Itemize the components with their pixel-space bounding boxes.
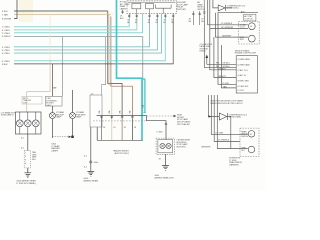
body line arrow xyxy=(174,115,177,117)
wire G2 row2 LT BLU xyxy=(14,18,137,30)
TAN lower branch xyxy=(49,14,51,60)
svg-text:OR/BLK: OR/BLK xyxy=(219,68,227,70)
tail lamp circle 1 xyxy=(16,120,23,127)
svg-text:REAR WINDOW ELECTRIC DEFOG: REAR WINDOW ELECTRIC DEFOG xyxy=(211,102,243,105)
svg-text:1 TAN: 1 TAN xyxy=(2,13,8,16)
wire to ground G400 left xyxy=(27,168,29,173)
taillamp box xyxy=(16,112,42,134)
svg-text:(EXPORT): (EXPORT) xyxy=(177,146,187,148)
svg-text:18: 18 xyxy=(124,127,126,129)
ground label middle xyxy=(84,178,99,182)
svg-text:S400: S400 xyxy=(94,162,99,164)
svg-text:CLUT: CLUT xyxy=(240,27,246,29)
svg-text:(DIAG): (DIAG) xyxy=(200,50,206,53)
svg-text:14 GND SIG: 14 GND SIG xyxy=(237,86,248,88)
svg-text:CLUTCH: CLUTCH xyxy=(244,19,252,21)
high mount inner box xyxy=(158,140,173,153)
junction arrow xyxy=(209,115,211,117)
SBEC feed verticals xyxy=(214,37,236,77)
A/C clutch title box xyxy=(244,14,256,21)
dashed arrow line xyxy=(52,136,68,138)
strip pins xyxy=(100,116,133,120)
diode label xyxy=(227,5,246,9)
svg-text:5 2: 5 2 xyxy=(91,94,94,96)
wire G2 row4 DK BLU xyxy=(14,37,143,113)
svg-text:BRN/WT: BRN/WT xyxy=(219,76,227,78)
svg-text:DIODE (GAS): DIODE (GAS) xyxy=(229,116,241,119)
backup lamp A xyxy=(49,113,55,119)
top middle module dashed box xyxy=(127,1,177,14)
SBEC title xyxy=(235,49,257,54)
svg-text:8 DKBLU: 8 DKBLU xyxy=(2,36,11,38)
wire G3 row1 LT BLU xyxy=(14,18,150,47)
computer data lines text xyxy=(200,44,213,53)
svg-text:LAMP: LAMP xyxy=(76,116,82,119)
trailer wire labels xyxy=(103,127,136,129)
svg-text:LT GRN/BLK: LT GRN/BLK xyxy=(221,23,233,25)
svg-text:33 SPD SEN: 33 SPD SEN xyxy=(237,81,249,83)
svg-text:52 SER DATA: 52 SER DATA xyxy=(237,63,250,66)
svg-text:2: 2 xyxy=(25,156,26,158)
svg-text:18: 18 xyxy=(159,159,161,161)
svg-text:18: 18 xyxy=(103,127,105,129)
svg-text:BRN/WHT: BRN/WHT xyxy=(222,36,232,38)
wire BLK branch down to label box xyxy=(51,64,53,97)
svg-text:12 OUT: 12 OUT xyxy=(237,90,245,92)
svg-text:DIODE (DSL): DIODE (DSL) xyxy=(227,8,239,10)
svg-text:TURN LAMP ►: TURN LAMP ► xyxy=(1,114,15,117)
high mount label xyxy=(177,140,191,149)
svg-text:TAN: TAN xyxy=(223,86,227,89)
wire to side marker lamp B xyxy=(71,90,73,113)
connector detail dashed xyxy=(24,151,30,168)
svg-text:4 LTBLU: 4 LTBLU xyxy=(2,61,10,63)
defogger feed vertical 2 xyxy=(211,95,248,134)
wire row2 TAN horizontal xyxy=(14,13,111,15)
defogger motor circle 1 xyxy=(248,131,255,138)
svg-text:(BEHIND REAR): (BEHIND REAR) xyxy=(84,180,99,183)
A/C feed pin xyxy=(203,0,205,16)
defogger bottom label xyxy=(229,157,242,167)
svg-text:TAN: TAN xyxy=(53,86,57,89)
stubs into taillamp box xyxy=(20,112,36,134)
svg-text:ENGINE CONTROLLER: ENGINE CONTROLLER xyxy=(235,53,257,55)
wire row3 BLK stub up to top edge xyxy=(14,0,17,19)
standalone relay text block 2 xyxy=(197,1,205,11)
svg-text:8 DKGRN: 8 DKGRN xyxy=(2,19,12,21)
pin left of module xyxy=(121,10,123,14)
contact stubs xyxy=(136,9,149,14)
label box LB1 above backup lamp xyxy=(46,96,63,106)
wire below taillamp box xyxy=(27,134,29,151)
faint scan wash xyxy=(19,0,33,22)
svg-text:DK GRN: DK GRN xyxy=(216,133,224,135)
clutch wire labels xyxy=(221,23,234,38)
defogger title xyxy=(211,100,244,105)
compressor clutch diode xyxy=(218,5,225,11)
liftgate note text xyxy=(177,115,191,126)
SBEC box xyxy=(236,56,257,93)
standalone pin 2 xyxy=(199,11,201,25)
svg-text:(BEHIND REAR QTR): (BEHIND REAR QTR) xyxy=(155,176,175,179)
svg-text:51 SER DATA: 51 SER DATA xyxy=(237,58,250,61)
contact rect 1 xyxy=(132,4,141,9)
label G1 rows xyxy=(2,11,12,21)
defogger motor circle 2 xyxy=(248,146,255,153)
svg-text:SPD: SPD xyxy=(240,39,245,41)
trailer bus xyxy=(97,139,143,141)
module pins below box xyxy=(128,14,174,18)
vertical wire to clutch feed 2 / SBEC xyxy=(210,0,236,70)
clutch coil circle 2 xyxy=(248,35,255,42)
wire G4 row2 BLK xyxy=(14,18,173,64)
defogger feed vertical 3 xyxy=(214,95,240,142)
BLK wire right of diode xyxy=(217,12,258,14)
defogger feed vertical 1 xyxy=(208,95,219,117)
wire row2 TAN vertical xyxy=(109,14,112,115)
svg-text:6 LTBLU: 6 LTBLU xyxy=(2,30,10,32)
thick teal bus L-shape xyxy=(117,0,143,140)
svg-text:DK BLU: DK BLU xyxy=(223,63,231,65)
module internal bus xyxy=(128,1,176,3)
splice label text xyxy=(51,144,60,153)
high mount bulb 1 xyxy=(160,143,165,148)
svg-text:LT SIDE KICK PANEL): LT SIDE KICK PANEL) xyxy=(16,182,36,185)
svg-text:DK GRN/WHT: DK GRN/WHT xyxy=(221,27,234,29)
svg-text:ONLY: ONLY xyxy=(46,105,52,107)
standalone relay text block 1 xyxy=(177,2,189,11)
defogger diode xyxy=(219,113,227,120)
svg-text:8-1: 8-1 xyxy=(84,156,87,158)
vertical wire to clutch feed 1 xyxy=(208,0,248,25)
ground symbol right xyxy=(162,166,169,171)
svg-text:18: 18 xyxy=(113,127,115,129)
maroon wire to trailer strip xyxy=(111,17,132,116)
pin ticks on gray vertical xyxy=(142,106,144,107)
feed pin marks xyxy=(165,123,167,124)
junction square dot xyxy=(71,136,74,138)
tail lamp circle 3 xyxy=(32,120,39,127)
clutch coil circle 1 xyxy=(248,23,255,30)
body dashed line xyxy=(93,120,146,122)
svg-text:W/O TRAILER: W/O TRAILER xyxy=(177,123,190,126)
svg-text:(EXPORT): (EXPORT) xyxy=(177,9,187,11)
rear lamp assembly label xyxy=(1,111,17,116)
connector bus strip xyxy=(97,115,147,117)
svg-text:LT GRN/BLK: LT GRN/BLK xyxy=(218,140,230,142)
strip pin labels (vertical) xyxy=(98,110,132,114)
svg-text:LT GRN: LT GRN xyxy=(222,83,230,85)
ground symbol left xyxy=(24,173,31,178)
svg-text:8-1: 8-1 xyxy=(84,167,87,169)
gray routing wire branch xyxy=(102,37,106,116)
wire G2 row1 LT BLU xyxy=(14,18,129,27)
ground label left xyxy=(16,180,36,185)
gray routing wire top xyxy=(62,37,64,97)
svg-text:1: 1 xyxy=(25,153,26,155)
svg-text:LAMPS: LAMPS xyxy=(120,7,127,10)
data lines arrow xyxy=(205,55,208,59)
svg-text:(EXPORT ONLY): (EXPORT ONLY) xyxy=(114,153,129,155)
label box LB0 above taillamp box xyxy=(22,96,42,104)
svg-text:LAMPS: LAMPS xyxy=(51,149,58,152)
high mount bulb 2 xyxy=(166,143,171,148)
data wire 1 xyxy=(207,63,236,65)
module pin labels xyxy=(127,20,174,24)
wire tall box to trailer bus xyxy=(96,127,98,140)
svg-text:17 BLK: 17 BLK xyxy=(156,132,163,134)
svg-text:2 LTBLU: 2 LTBLU xyxy=(2,33,10,35)
tail lamp circle 2 xyxy=(24,120,31,127)
contact bridge xyxy=(155,5,171,14)
ground symbol middle xyxy=(87,171,94,176)
wire G3 row3 LT BLU xyxy=(14,14,162,54)
wire G2 row3 LT BLU xyxy=(14,14,143,33)
data wire 2 xyxy=(204,16,236,67)
high mount ground wire xyxy=(165,154,167,165)
contact rect 2 xyxy=(146,4,154,9)
svg-text:18: 18 xyxy=(134,127,136,129)
svg-text:3: 3 xyxy=(25,160,26,162)
svg-text:8-1: 8-1 xyxy=(21,148,24,150)
backup lamp B xyxy=(70,113,76,119)
tall connector box xyxy=(90,95,102,127)
wire row1 BLK vertical down to connector bus xyxy=(108,11,122,116)
high mount lamp feed xyxy=(147,116,167,140)
svg-text:4 BLK: 4 BLK xyxy=(2,11,8,13)
svg-text:HARNESS: HARNESS xyxy=(229,164,239,167)
S400 splice dot xyxy=(90,161,92,163)
defogger dashed box xyxy=(240,128,259,156)
ground label right xyxy=(155,175,175,179)
svg-text:41 A/C IN: 41 A/C IN xyxy=(237,74,246,77)
wire row1 BLK horizontal xyxy=(14,10,108,12)
svg-text:BRN/WHT: BRN/WHT xyxy=(202,147,212,149)
vertical wire to diode xyxy=(213,0,218,8)
wire G3 row2 LT BLU xyxy=(14,18,157,50)
A/C compressor clutch dashed box xyxy=(239,22,260,45)
svg-text:57 A/C CLU: 57 A/C CLU xyxy=(237,69,248,72)
svg-text:2 LTBLU: 2 LTBLU xyxy=(2,27,10,29)
svg-text:6 LTBLU: 6 LTBLU xyxy=(2,50,10,52)
standalone pin 1 xyxy=(192,11,194,25)
svg-text:3 LTBLU: 3 LTBLU xyxy=(2,47,10,49)
wires below lamps A and B xyxy=(51,119,53,138)
trailer label xyxy=(113,150,130,155)
trailer wires below strip xyxy=(101,119,103,140)
defogger feed vertical 4 xyxy=(217,95,248,149)
svg-text:8-1: 8-1 xyxy=(21,138,24,140)
wire G4 row1 LT BLU xyxy=(14,18,165,61)
S400 splice wire xyxy=(90,127,92,171)
wire LB1 to lamp A xyxy=(51,106,53,113)
svg-text:LAMP: LAMP xyxy=(56,116,62,119)
svg-text:6 LTBLU: 6 LTBLU xyxy=(2,53,10,55)
text block left of module xyxy=(120,1,131,11)
high mount stop lamp dashed box xyxy=(156,138,174,154)
svg-text:8 BLK: 8 BLK xyxy=(2,64,8,66)
svg-text:DEFOG: DEFOG xyxy=(241,136,248,138)
